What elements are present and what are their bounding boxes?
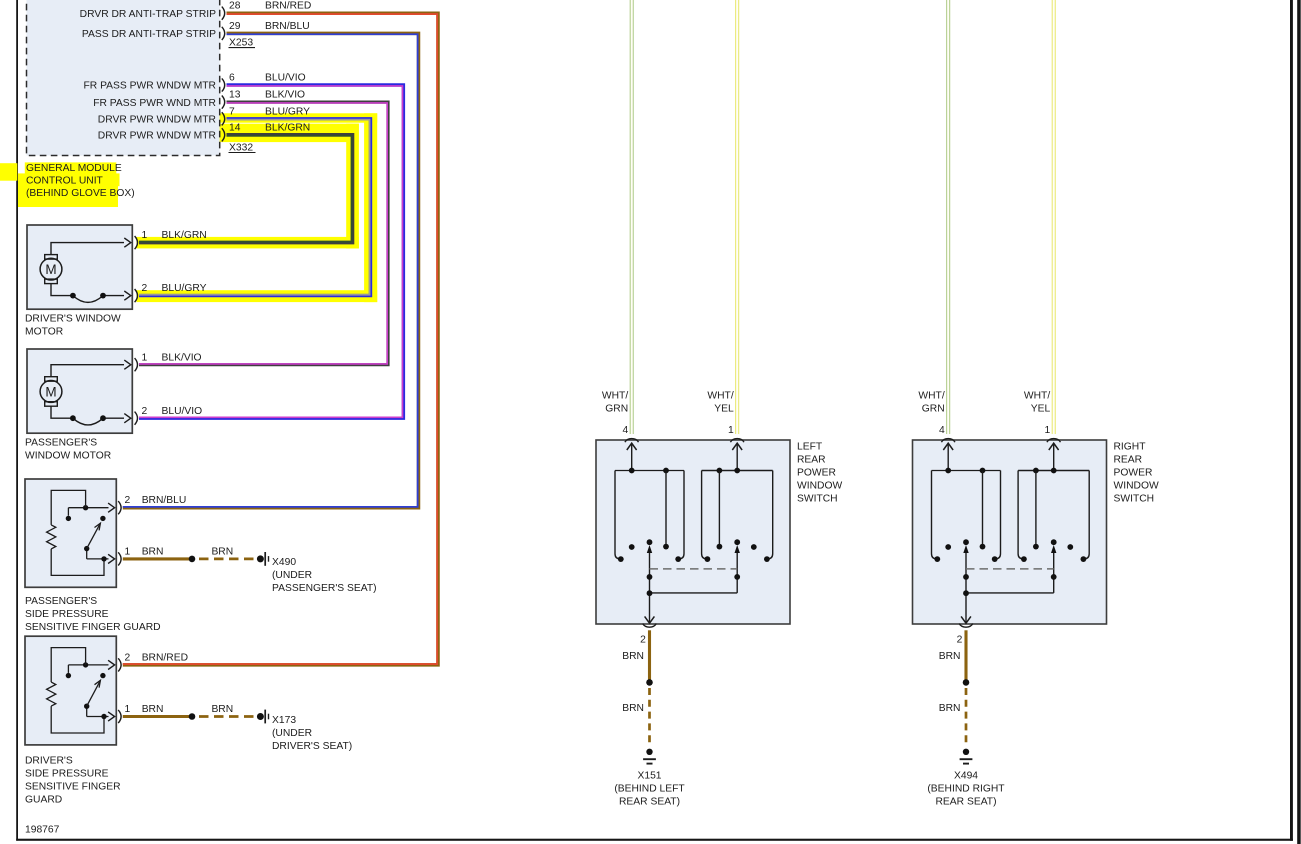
highlight band wire BLK/GRN motor pin 1 horizontal — [137, 237, 359, 249]
contact group left drop with hook — [702, 471, 707, 559]
svg-text:GRN: GRN — [605, 404, 628, 415]
border frame right inner — [1290, 0, 1293, 841]
wire BLU/VIO pin 6 to passenger window motor pin 2 — [139, 85, 403, 418]
svg-text:4: 4 — [939, 425, 945, 436]
contact group left drop with hook — [1018, 471, 1023, 559]
svg-text:29: 29 — [229, 21, 241, 32]
finger guard DRIVER'S SIDE PRESSURE SENSITIVE FINGER GUARD switch arm — [86, 706, 88, 716]
finger guard DRIVER'S SIDE PRESSURE SENSITIVE FINGER GUARD fixed contact left — [67, 665, 69, 673]
svg-text:1: 1 — [728, 425, 734, 436]
svg-text:BRN: BRN — [142, 546, 164, 557]
svg-text:(UNDER: (UNDER — [272, 728, 312, 739]
finger guard DRIVER'S SIDE PRESSURE SENSITIVE FINGER GUARD wire to pin 1 — [87, 716, 109, 718]
contact group left bus — [932, 470, 1001, 472]
wire BRN from switch pin 2 — [648, 630, 651, 682]
contact dot — [945, 544, 951, 550]
splice junction — [189, 713, 196, 720]
splice junction — [646, 679, 653, 686]
svg-text:X253: X253 — [229, 38, 253, 49]
mechanical link (dashed) — [966, 568, 1054, 570]
motor PASSENGER'S WINDOW MOTOR pin 2 connector — [135, 412, 138, 425]
wire BRN/BLU pin 29 to passenger finger guard pin 2 — [123, 33, 419, 507]
border frame left — [16, 0, 18, 841]
svg-text:BLK/VIO: BLK/VIO — [162, 352, 202, 363]
svg-text:BRN: BRN — [142, 704, 164, 715]
switch RIGHT REAR POWER WINDOW SWITCH pin 2 connector — [959, 624, 973, 628]
wire BRN solid from DRIVER'S SIDE PRESSURE SENSITIVE FINGER GUARD pin 1 — [123, 715, 192, 718]
svg-text:WHT/: WHT/ — [707, 391, 733, 402]
wire BRN dashed to X490 — [199, 558, 255, 561]
svg-text:14: 14 — [229, 122, 241, 133]
finger guard DRIVER'S SIDE PRESSURE SENSITIVE FINGER GUARD resistor loop top lead — [51, 648, 85, 683]
highlight band wire BLU/GRY motor pin 2 horizontal — [137, 290, 378, 302]
highlight band wire BLK/GRN pin 14 horizontal (covers label) — [220, 124, 359, 142]
svg-text:PASSENGER'S: PASSENGER'S — [25, 596, 97, 607]
motor PASSENGER'S WINDOW MOTOR symbol M — [40, 381, 62, 403]
movable contact arrow left — [965, 551, 967, 593]
svg-text:SIDE PRESSURE: SIDE PRESSURE — [25, 768, 109, 779]
wire WHT/GRN vertical from top — [946, 0, 950, 434]
splice junction — [189, 556, 196, 563]
svg-text:2: 2 — [142, 406, 148, 417]
svg-text:M: M — [45, 384, 56, 399]
switch RIGHT REAR POWER WINDOW SWITCH pin 1 connector — [1047, 439, 1061, 443]
wire BRN from switch pin 2 — [964, 630, 967, 682]
motor PASSENGER'S WINDOW MOTOR armature wire to pin 1 — [51, 365, 124, 377]
svg-text:GUARD: GUARD — [25, 794, 62, 805]
contact group right drop with hook — [679, 471, 684, 559]
contact group right drop with hook — [1084, 471, 1089, 559]
entry wire with arrow — [736, 443, 738, 470]
switch LEFT REAR POWER WINDOW SWITCH pin 1 connector — [730, 439, 744, 443]
contact group right bus — [1018, 470, 1089, 472]
finger guard DRIVER'S SIDE PRESSURE SENSITIVE FINGER GUARD fixed contact right — [100, 673, 105, 678]
motor DRIVER'S WINDOW MOTOR box — [27, 225, 132, 309]
svg-text:WHT/: WHT/ — [1024, 391, 1050, 402]
svg-text:DRIVER'S WINDOW: DRIVER'S WINDOW — [25, 314, 121, 325]
svg-text:YEL: YEL — [1031, 404, 1051, 415]
entry wire with arrow — [1053, 443, 1055, 470]
finger guard PASSENGER'S SIDE PRESSURE SENSITIVE FINGER GUARD pin 1 connector — [118, 552, 121, 565]
control unit pin 6 connector — [222, 78, 225, 91]
wire BLU/GRY pin 7 to driver window motor pin 2 — [139, 119, 371, 296]
svg-text:2: 2 — [125, 652, 131, 663]
svg-text:WINDOW: WINDOW — [1114, 481, 1159, 492]
svg-text:PASS DR ANTI-TRAP STRIP: PASS DR ANTI-TRAP STRIP — [82, 29, 216, 40]
svg-text:2: 2 — [640, 635, 646, 646]
contact dot — [1067, 544, 1073, 550]
svg-text:BRN/BLU: BRN/BLU — [142, 495, 187, 506]
finger guard PASSENGER'S SIDE PRESSURE SENSITIVE FINGER GUARD wire to pin 1 — [87, 558, 109, 560]
highlight band wire BLU/GRY vertical — [364, 113, 377, 302]
svg-text:X151: X151 — [637, 770, 661, 781]
highlight band wire BLU/GRY pin 7 horizontal — [220, 113, 378, 122]
motor DRIVER'S WINDOW MOTOR brush top — [45, 255, 58, 260]
svg-text:X490: X490 — [272, 557, 296, 568]
wire BRN/RED pin 28 to driver finger guard pin 2 — [123, 13, 438, 665]
wire WHT/YEL vertical from top — [735, 0, 739, 434]
movable contact arrow right — [736, 551, 738, 593]
svg-text:YEL: YEL — [714, 404, 734, 415]
control unit pin 14 connector — [222, 128, 225, 141]
svg-text:BLU/VIO: BLU/VIO — [265, 73, 306, 84]
highlight band wire BLK/GRN vertical — [346, 124, 359, 249]
svg-text:198767: 198767 — [25, 825, 60, 836]
svg-text:BRN: BRN — [622, 703, 644, 714]
finger guard PASSENGER'S SIDE PRESSURE SENSITIVE FINGER GUARD switch arm — [86, 549, 88, 559]
svg-text:POWER: POWER — [1114, 468, 1153, 479]
motor PASSENGER'S WINDOW MOTOR brush top — [45, 377, 58, 382]
svg-text:DRVR DR ANTI-TRAP STRIP: DRVR DR ANTI-TRAP STRIP — [80, 9, 216, 20]
motor PASSENGER'S WINDOW MOTOR box — [27, 349, 132, 433]
finger guard PASSENGER'S SIDE PRESSURE SENSITIVE FINGER GUARD resistor loop top lead — [51, 490, 85, 525]
svg-text:REAR SEAT): REAR SEAT) — [619, 796, 680, 807]
svg-text:GENERAL MODULE: GENERAL MODULE — [26, 163, 122, 174]
wire WHT/YEL vertical from top — [1052, 0, 1056, 434]
svg-text:4: 4 — [622, 425, 628, 436]
splice junction — [963, 679, 970, 686]
svg-text:(BEHIND GLOVE BOX): (BEHIND GLOVE BOX) — [26, 188, 135, 199]
motor DRIVER'S WINDOW MOTOR pin 2 connector — [135, 289, 138, 302]
svg-text:REAR: REAR — [1114, 455, 1143, 466]
svg-text:WINDOW: WINDOW — [797, 481, 842, 492]
wire BRN dashed to ground — [965, 688, 968, 746]
svg-text:28: 28 — [229, 1, 241, 12]
svg-text:M: M — [45, 262, 56, 277]
svg-text:SIDE PRESSURE: SIDE PRESSURE — [25, 609, 109, 620]
contact group right drop with hook — [767, 471, 772, 559]
wire BLK/GRN pin 14 to driver window motor pin 1 — [139, 135, 353, 243]
inline connector X173 symbol — [257, 713, 264, 720]
switch LEFT REAR POWER WINDOW SWITCH box — [596, 440, 790, 624]
finger guard PASSENGER'S SIDE PRESSURE SENSITIVE FINGER GUARD pin 2 connector — [118, 501, 121, 514]
switch RIGHT REAR POWER WINDOW SWITCH box — [913, 440, 1107, 624]
movable contact arrow right — [1053, 551, 1055, 593]
contact group mid drop — [665, 471, 667, 545]
motor DRIVER'S WINDOW MOTOR symbol M — [40, 258, 62, 280]
svg-text:FR PASS PWR WND MTR: FR PASS PWR WND MTR — [93, 98, 216, 109]
svg-text:1: 1 — [142, 352, 148, 363]
finger guard DRIVER'S SIDE PRESSURE SENSITIVE FINGER GUARD wire to pin 2 — [68, 664, 108, 666]
common bottom bus — [650, 593, 738, 623]
border frame right outer — [1297, 0, 1301, 844]
svg-text:BLK/GRN: BLK/GRN — [265, 122, 310, 133]
finger guard DRIVER'S SIDE PRESSURE SENSITIVE FINGER GUARD pin 2 connector — [118, 658, 121, 671]
switch LEFT REAR POWER WINDOW SWITCH pin 2 connector — [643, 624, 657, 628]
finger guard PASSENGER'S SIDE PRESSURE SENSITIVE FINGER GUARD fixed contact right — [100, 516, 105, 521]
svg-text:WHT/: WHT/ — [918, 391, 944, 402]
finger guard PASSENGER'S SIDE PRESSURE SENSITIVE FINGER GUARD wire to pin 2 — [68, 507, 108, 509]
ground X494 — [963, 749, 969, 755]
svg-text:BRN: BRN — [939, 651, 961, 662]
contact group mid drop — [982, 471, 984, 545]
svg-text:FR PASS PWR WNDW MTR: FR PASS PWR WNDW MTR — [83, 81, 216, 92]
wire BRN solid from PASSENGER'S SIDE PRESSURE SENSITIVE FINGER GUARD pin 1 — [123, 557, 192, 560]
finger guard DRIVER'S SIDE PRESSURE SENSITIVE FINGER GUARD pin 1 connector — [118, 710, 121, 723]
svg-text:DRVR PWR WNDW MTR: DRVR PWR WNDW MTR — [98, 115, 216, 126]
wire BLK/VIO pin 13 to passenger window motor pin 1 — [139, 102, 388, 365]
control unit U1 GENERAL MODULE box (dashed) — [27, 0, 220, 156]
svg-text:GRN: GRN — [922, 404, 945, 415]
svg-text:SWITCH: SWITCH — [797, 494, 838, 505]
svg-text:WHT/: WHT/ — [602, 391, 628, 402]
contact dot — [751, 544, 757, 550]
finger guard DRIVER'S SIDE PRESSURE SENSITIVE FINGER GUARD resistor bottom lead to pin 1 — [51, 706, 104, 733]
svg-text:X494: X494 — [954, 770, 978, 781]
svg-text:CONTROL UNIT: CONTROL UNIT — [26, 176, 104, 187]
border frame bottom — [16, 839, 1293, 841]
wire BRN dashed to X173 — [199, 715, 255, 718]
control unit pin 28 connector — [222, 7, 225, 20]
entry wire with arrow — [947, 443, 949, 470]
switch RIGHT REAR POWER WINDOW SWITCH pin 4 connector — [941, 439, 955, 443]
contact group left drop with hook — [615, 471, 620, 559]
common bottom bus — [966, 593, 1054, 623]
svg-text:2: 2 — [142, 283, 148, 294]
svg-text:REAR SEAT): REAR SEAT) — [935, 796, 996, 807]
svg-text:2: 2 — [125, 495, 131, 506]
finger guard PASSENGER'S SIDE PRESSURE SENSITIVE FINGER GUARD fixed contact left — [67, 508, 69, 516]
svg-text:PASSENGER'S SEAT): PASSENGER'S SEAT) — [272, 583, 377, 594]
motor DRIVER'S WINDOW MOTOR armature wire to pin 1 — [51, 243, 124, 255]
motor PASSENGER'S WINDOW MOTOR wire to pin 2 with thermal breaker — [51, 406, 73, 418]
svg-text:BRN/RED: BRN/RED — [142, 652, 188, 663]
svg-text:BLK/GRN: BLK/GRN — [162, 230, 207, 241]
switch LEFT REAR POWER WINDOW SWITCH pin 4 connector — [625, 439, 639, 443]
svg-text:2: 2 — [957, 635, 963, 646]
svg-text:DRIVER'S SEAT): DRIVER'S SEAT) — [272, 741, 352, 752]
entry wire with arrow — [631, 443, 633, 470]
ground X151 — [646, 749, 652, 755]
svg-text:BRN: BRN — [939, 703, 961, 714]
svg-text:PASSENGER'S: PASSENGER'S — [25, 438, 97, 449]
svg-text:MOTOR: MOTOR — [25, 327, 63, 338]
svg-text:RIGHT: RIGHT — [1114, 442, 1147, 453]
svg-text:BLU/GRY: BLU/GRY — [265, 106, 310, 117]
svg-text:13: 13 — [229, 90, 241, 101]
svg-text:(BEHIND LEFT: (BEHIND LEFT — [614, 783, 685, 794]
finger guard DRIVER'S SIDE PRESSURE SENSITIVE FINGER GUARD resistor R zigzag — [47, 682, 56, 706]
svg-text:LEFT: LEFT — [797, 442, 823, 453]
svg-text:6: 6 — [229, 73, 235, 84]
wire WHT/GRN vertical from top — [630, 0, 634, 434]
svg-text:BRN: BRN — [211, 704, 233, 715]
svg-text:BLU/GRY: BLU/GRY — [162, 283, 207, 294]
contact dot — [629, 544, 635, 550]
svg-text:1: 1 — [125, 546, 131, 557]
svg-text:BLK/VIO: BLK/VIO — [265, 90, 305, 101]
motor PASSENGER'S WINDOW MOTOR pin 1 connector — [135, 358, 138, 371]
svg-text:DRIVER'S: DRIVER'S — [25, 755, 73, 766]
svg-text:SENSITIVE FINGER: SENSITIVE FINGER — [25, 781, 121, 792]
svg-text:X173: X173 — [272, 715, 296, 726]
highlight general module label — [0, 163, 17, 181]
svg-text:BRN: BRN — [211, 546, 233, 557]
contact group left drop with hook — [932, 471, 937, 559]
svg-text:DRVR PWR WNDW MTR: DRVR PWR WNDW MTR — [98, 131, 216, 142]
contact group mid drop — [718, 471, 720, 545]
svg-text:BRN/RED: BRN/RED — [265, 1, 311, 12]
finger guard DRIVER'S SIDE PRESSURE SENSITIVE FINGER GUARD box — [25, 636, 116, 745]
movable contact arrow left — [649, 551, 651, 593]
svg-text:BRN/BLU: BRN/BLU — [265, 21, 310, 32]
svg-text:SWITCH: SWITCH — [1114, 494, 1155, 505]
motor DRIVER'S WINDOW MOTOR brush bottom — [45, 279, 58, 284]
control unit pin 29 connector — [222, 27, 225, 40]
svg-text:(UNDER: (UNDER — [272, 570, 312, 581]
svg-text:WINDOW MOTOR: WINDOW MOTOR — [25, 451, 111, 462]
finger guard PASSENGER'S SIDE PRESSURE SENSITIVE FINGER GUARD resistor R zigzag — [47, 525, 56, 549]
contact group right drop with hook — [995, 471, 1000, 559]
contact group left bus — [615, 470, 684, 472]
finger guard PASSENGER'S SIDE PRESSURE SENSITIVE FINGER GUARD box — [25, 479, 116, 587]
mechanical link (dashed) — [650, 568, 738, 570]
svg-text:BLU/VIO: BLU/VIO — [162, 406, 203, 417]
svg-text:SENSITIVE FINGER GUARD: SENSITIVE FINGER GUARD — [25, 622, 161, 633]
svg-text:(BEHIND RIGHT: (BEHIND RIGHT — [927, 783, 1005, 794]
wire BRN dashed to ground — [648, 688, 651, 746]
contact group mid drop — [1035, 471, 1037, 545]
contact group right bus — [702, 470, 773, 472]
svg-text:7: 7 — [229, 106, 235, 117]
motor DRIVER'S WINDOW MOTOR wire to pin 2 with thermal breaker — [51, 284, 73, 296]
svg-text:1: 1 — [1044, 425, 1050, 436]
svg-text:POWER: POWER — [797, 468, 836, 479]
svg-text:REAR: REAR — [797, 455, 826, 466]
inline connector X490 symbol — [257, 555, 264, 562]
control unit pin 7 connector — [222, 112, 225, 125]
svg-text:1: 1 — [142, 230, 148, 241]
svg-text:1: 1 — [125, 704, 131, 715]
motor PASSENGER'S WINDOW MOTOR brush bottom — [45, 402, 58, 407]
svg-text:BRN: BRN — [622, 651, 644, 662]
motor DRIVER'S WINDOW MOTOR pin 1 connector — [135, 236, 138, 249]
finger guard PASSENGER'S SIDE PRESSURE SENSITIVE FINGER GUARD resistor bottom lead to pin 1 — [51, 549, 104, 576]
control unit pin 13 connector — [222, 96, 225, 109]
svg-text:X332: X332 — [229, 142, 253, 153]
